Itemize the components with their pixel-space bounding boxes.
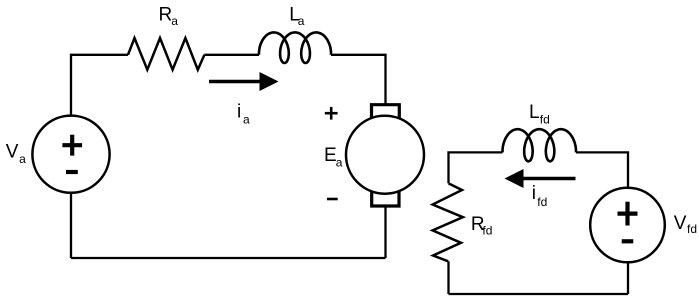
resistor Rfd [433,183,463,261]
minus of Vfd [622,239,634,243]
wire bottom-left up to Va [70,193,72,258]
minus of Va [66,170,78,174]
svg-text:fd: fd [687,222,697,236]
wire Ra to La [204,54,259,56]
wire motor bottom to bottom-right corner [384,205,386,258]
current arrow ifd [505,169,576,188]
motor Ea: armature circle [346,116,424,194]
svg-text:V: V [6,142,19,163]
source Vfd circle [590,188,665,263]
plus of Va [62,135,82,156]
motor Ea: bottom brush [372,191,399,206]
svg-text:fd: fd [537,195,547,209]
motor Ea: top brush [372,105,400,119]
inductor Lfd [503,129,577,161]
wire bottom-left up to Rfd [447,261,449,294]
inductor La [259,32,331,63]
wire field top-left: Rfd top to Lfd [449,152,503,183]
wire field bottom [449,293,629,295]
wire La to motor top [331,55,386,105]
wire armature bottom [71,257,386,259]
label - of Ea [327,198,338,201]
resistor Ra [128,38,204,70]
label + of Ea [325,107,338,120]
svg-text:V: V [674,213,687,234]
svg-text:a: a [243,113,250,127]
svg-text:a: a [171,14,178,28]
plus of Vfd [618,202,638,226]
wire Vfd bottom to bottom-right corner [627,262,629,294]
svg-text:a: a [336,156,343,170]
wire Lfd to Vfd top [576,152,628,187]
wire armature top-left: Va top to resistor Ra [71,55,128,116]
current arrow ia [209,72,279,91]
svg-text:i: i [237,102,241,123]
svg-text:L: L [529,102,540,123]
svg-text:fd: fd [540,113,550,127]
svg-text:i: i [532,183,536,204]
svg-text:fd: fd [482,224,492,238]
svg-text:a: a [19,152,26,166]
svg-text:a: a [298,14,305,28]
svg-text:R: R [159,5,173,26]
source Va circle [32,116,109,193]
